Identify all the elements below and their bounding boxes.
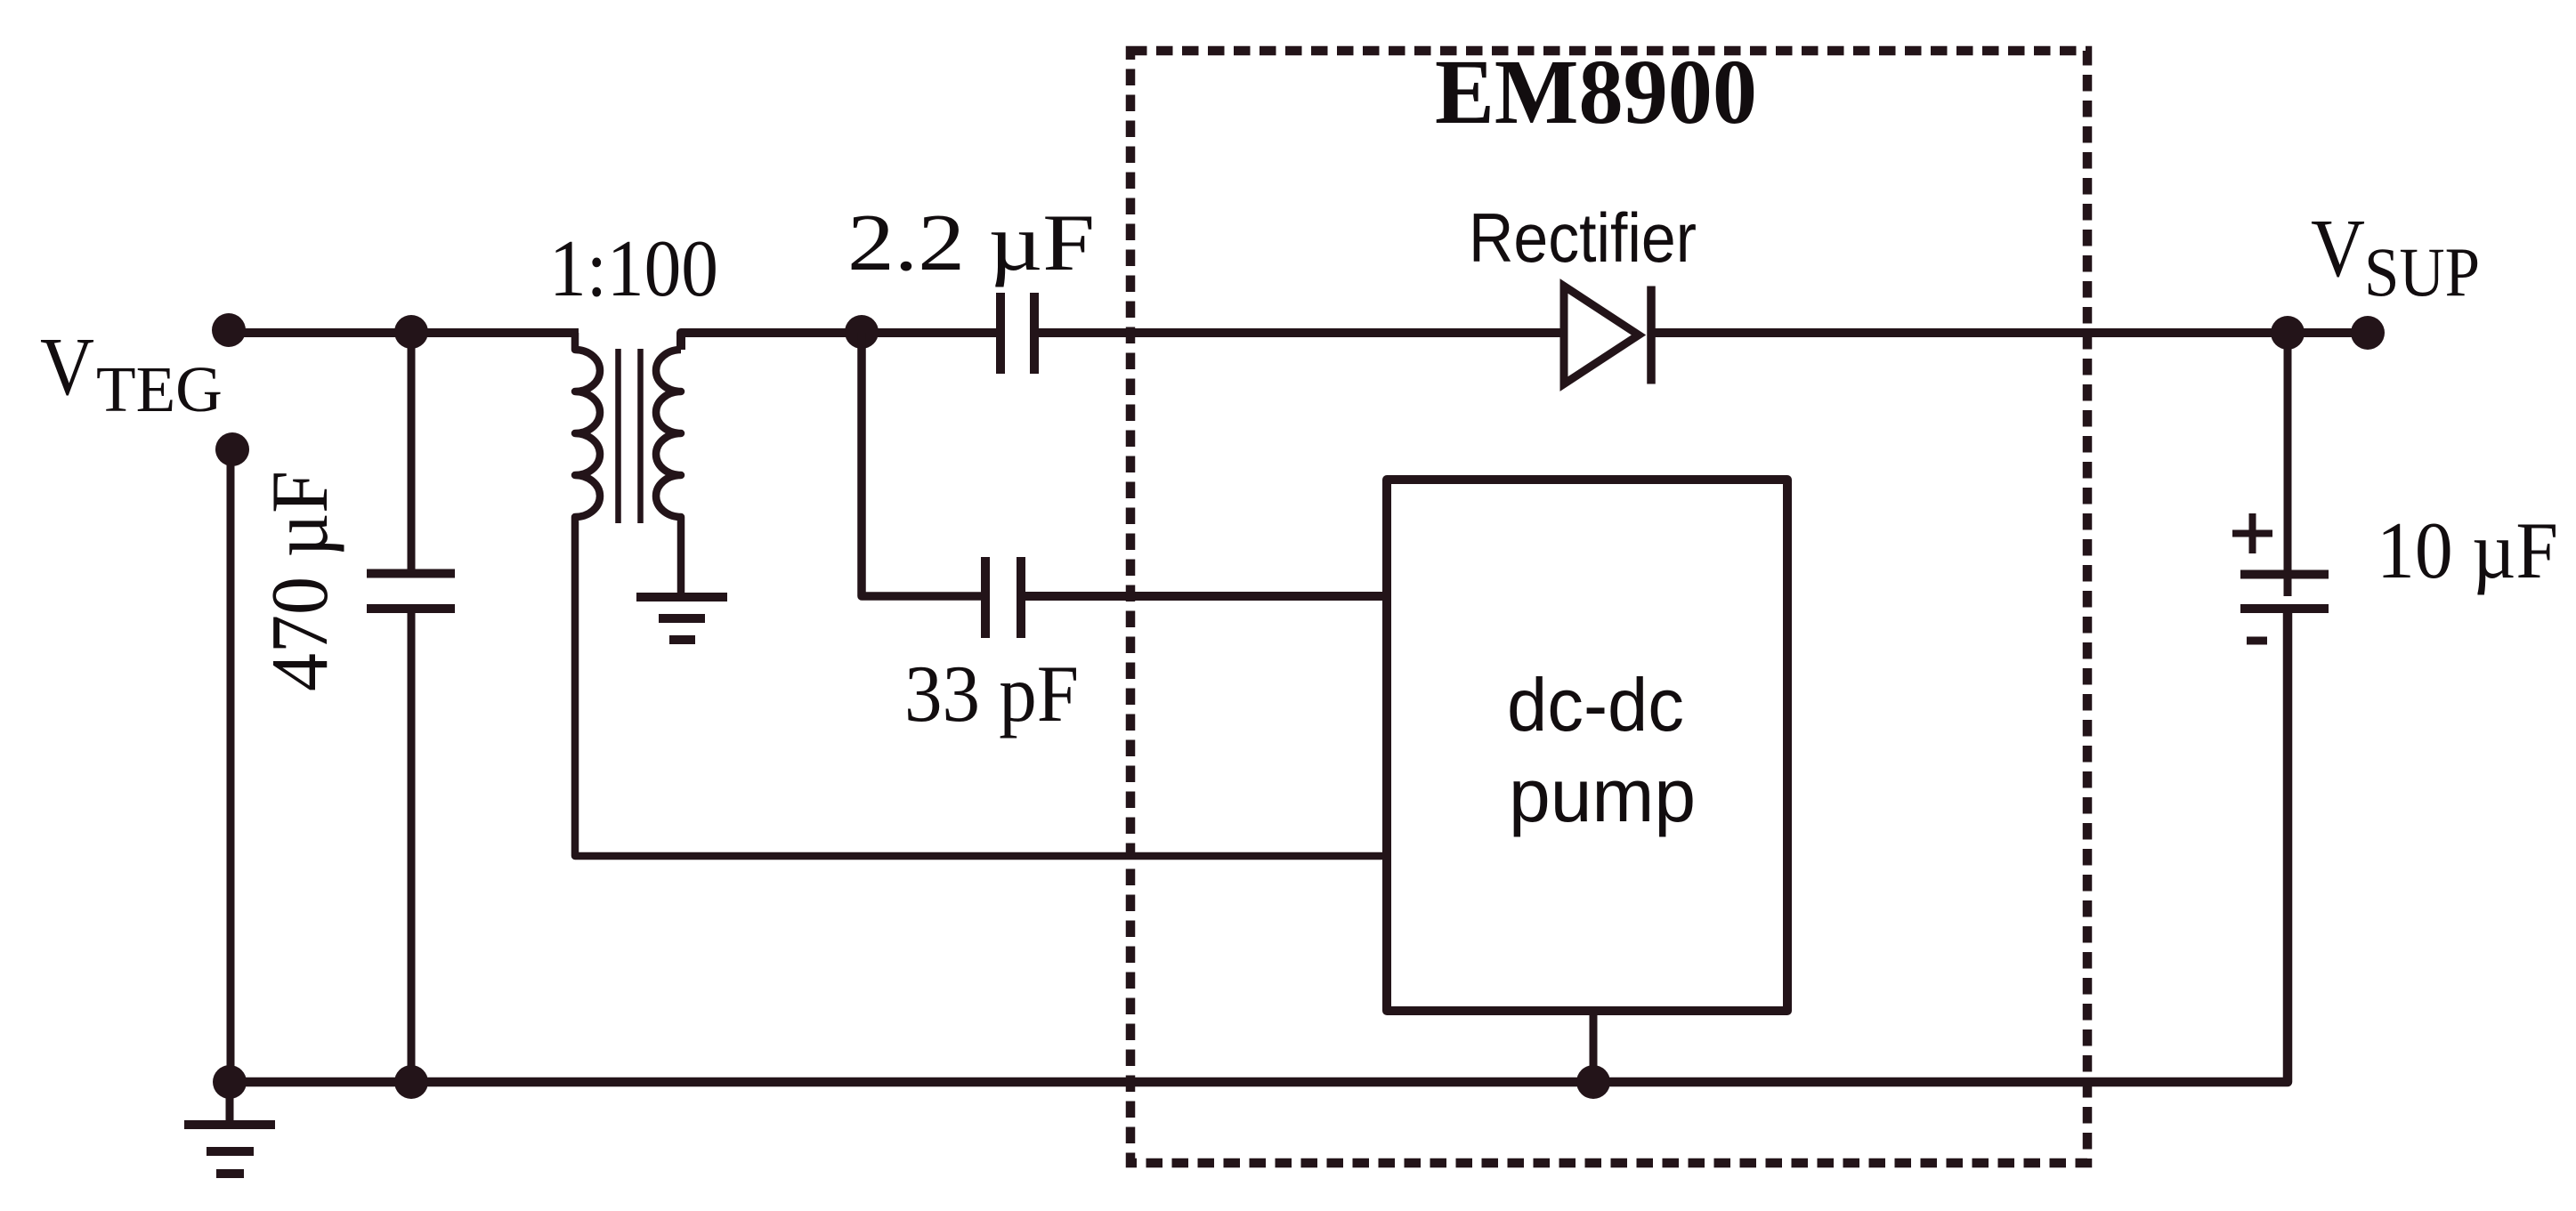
node junction 470uF tap	[394, 315, 428, 349]
capacitor C4 10uF top lead wire	[2284, 333, 2292, 596]
capacitor C3 33pF plates	[981, 557, 990, 638]
wire 2.2uF to diode anode	[1034, 328, 1564, 337]
svg-text:SUP: SUP	[2364, 233, 2480, 311]
svg-text:470 µF: 470 µF	[255, 471, 344, 691]
capacitor C1 470uF bottom lead wire	[408, 609, 416, 1082]
wire top-left from VTEG to transformer primary	[229, 328, 579, 337]
wire VTEG lower terminal to ground bus	[227, 448, 235, 1082]
svg-text:pump: pump	[1509, 754, 1696, 837]
transformer T1 secondary winding	[656, 350, 681, 593]
EM8900 dashed boundary box	[1130, 51, 2087, 1163]
svg-text:1:100: 1:100	[549, 223, 718, 313]
wire dc-dc pump ground pin	[1590, 1011, 1598, 1082]
transformer T1 primary winding	[575, 333, 1387, 856]
node VSUP terminal	[2351, 316, 2385, 350]
node VSUP junction	[2271, 316, 2305, 350]
svg-text:33 pF: 33 pF	[904, 649, 1079, 739]
diode D1 rectifier	[1564, 287, 1639, 384]
transformer T1 core	[615, 349, 621, 523]
ground bus wire	[231, 609, 2288, 1082]
svg-text:10 µF: 10 µF	[2377, 505, 2558, 595]
capacitor C1 470uF plates	[367, 569, 455, 578]
node ground bus 470uF	[394, 1065, 428, 1099]
ground symbol bottom left	[226, 1082, 234, 1125]
svg-text:V: V	[2311, 203, 2365, 295]
capacitor C1 470uF top lead wire	[408, 333, 416, 573]
wire 33pF to dc-dc pump	[1021, 592, 1387, 601]
node ground bus dc-dc pump	[1576, 1065, 1610, 1099]
svg-text:2.2 µF: 2.2 µF	[847, 198, 1095, 287]
node VTEG upper terminal	[212, 313, 246, 347]
capacitor C2 2.2uF plates	[996, 293, 1005, 374]
capacitor C4 10uF plates	[2240, 570, 2329, 579]
wire junction down to 33pF	[862, 333, 981, 596]
ground under transformer secondary	[636, 593, 727, 601]
svg-text:dc-dc: dc-dc	[1507, 663, 1684, 747]
node secondary junction	[845, 315, 879, 349]
svg-text:Rectifier: Rectifier	[1469, 198, 1697, 277]
svg-text:EM8900: EM8900	[1435, 41, 1757, 143]
capacitor C4 minus sign	[2247, 637, 2267, 645]
node ground bus left	[213, 1065, 247, 1099]
wire transformer secondary to 2.2uF	[681, 333, 996, 350]
node VTEG lower terminal	[215, 432, 249, 466]
wire diode cathode to VSUP	[1651, 328, 2368, 337]
svg-text:V: V	[40, 321, 94, 413]
svg-text:TEG: TEG	[96, 353, 223, 425]
capacitor C4 plus sign	[2232, 513, 2272, 553]
dc-dc pump block U1	[1387, 480, 1787, 1011]
